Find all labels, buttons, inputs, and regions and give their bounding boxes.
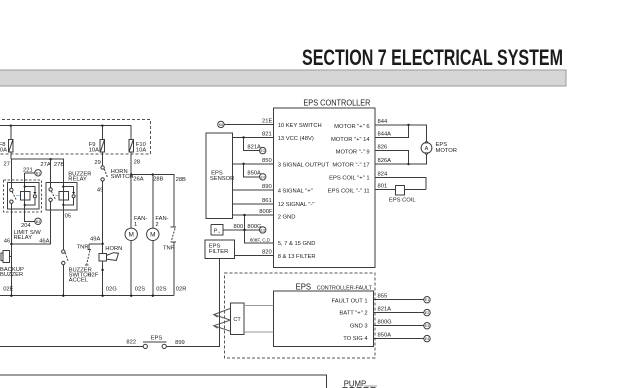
svg-text:10A: 10A	[0, 148, 7, 154]
wire 844	[375, 125, 427, 141]
EPS disconnect switch	[143, 342, 167, 348]
connector E1	[424, 297, 430, 303]
node gnd link top	[243, 214, 245, 216]
relay1 moving contact	[12, 192, 16, 200]
node rail-relay2	[49, 158, 51, 160]
svg-text:29: 29	[94, 160, 100, 166]
wire 824	[375, 178, 426, 190]
wire 890	[233, 189, 274, 191]
wire top supply bus	[0, 126, 131, 140]
svg-text:RELAY: RELAY	[14, 235, 33, 241]
relay2 moving contact	[51, 191, 55, 199]
horn switch	[101, 166, 108, 181]
svg-text:GND 3: GND 3	[350, 324, 368, 330]
svg-text:1: 1	[134, 222, 137, 228]
wire fan distribution	[131, 175, 174, 227]
svg-text:SENSOR: SENSOR	[210, 176, 234, 182]
connector K6	[218, 121, 224, 127]
svg-text:204: 204	[21, 223, 31, 229]
wire buzzer to ground	[10, 244, 12, 296]
relay2 actuator link	[55, 194, 59, 196]
svg-text:899: 899	[175, 340, 185, 346]
connector E4 sensor	[260, 174, 266, 180]
node fan1 tap	[130, 173, 132, 175]
node F8 tap	[10, 125, 12, 127]
node 826 join	[407, 163, 409, 165]
relay K2 buzzer relay body	[46, 183, 77, 210]
svg-text:10 KEY SWITCH: 10 KEY SWITCH	[278, 123, 322, 129]
svg-text:EPS: EPS	[151, 336, 163, 342]
svg-text:EPS COIL: EPS COIL	[389, 197, 417, 203]
motor fan2	[147, 228, 159, 240]
svg-text:E3: E3	[260, 149, 264, 153]
backup buzzer	[1, 251, 11, 263]
svg-text:28B: 28B	[153, 177, 163, 183]
svg-text:5, 7 & 15 GND: 5, 7 & 15 GND	[278, 241, 316, 247]
fuse box dashed enclosure	[0, 120, 151, 155]
wire 21E	[224, 123, 274, 125]
svg-text:B1: B1	[36, 171, 40, 175]
node 850A tap	[242, 163, 244, 165]
svg-text:844A: 844A	[378, 131, 392, 137]
node 821A tap	[242, 136, 244, 138]
svg-text:02F: 02F	[88, 272, 98, 278]
horn sounder	[99, 253, 118, 261]
svg-text:800: 800	[234, 224, 244, 230]
svg-text:02S: 02S	[156, 286, 166, 292]
node ground 02A	[62, 295, 64, 297]
wire relay2 aux loop	[63, 187, 73, 192]
pin relay1 contact bottom	[10, 200, 13, 203]
svg-text:TNR: TNR	[77, 244, 89, 250]
wire relay2 left pole	[50, 159, 52, 188]
svg-text:E1: E1	[425, 298, 429, 302]
node 49A junction	[101, 243, 103, 245]
wire 850	[233, 163, 274, 165]
wire relay1 coil to B3	[25, 209, 35, 221]
fuse F10	[129, 139, 146, 153]
EPS filter box	[205, 240, 234, 259]
wire 844A	[375, 125, 409, 137]
pin relay2 aux contact	[72, 192, 75, 198]
svg-text:821: 821	[262, 131, 272, 137]
wire relay1 aux loop	[25, 187, 35, 192]
svg-text:02S: 02S	[135, 286, 145, 292]
svg-text:K6: K6	[219, 123, 223, 127]
wire relay1 left pole	[10, 159, 12, 188]
svg-text:850A: 850A	[247, 171, 261, 177]
CT box	[230, 303, 243, 334]
EPS controller box	[274, 108, 375, 267]
EPS coil L1	[396, 186, 405, 195]
svg-text:27A: 27A	[40, 162, 50, 168]
svg-text:A: A	[425, 146, 429, 152]
svg-text:800F: 800F	[259, 209, 273, 215]
wire coil return	[404, 189, 426, 191]
connector E4	[424, 335, 430, 341]
svg-text:MOTOR "+" 14: MOTOR "+" 14	[331, 137, 370, 143]
connector B3	[35, 218, 41, 224]
pin relay2 contact top	[49, 188, 52, 191]
wire ground bus	[0, 295, 174, 297]
twisted pair lower	[214, 320, 231, 331]
EPS sensor box	[206, 133, 233, 218]
wire 861	[233, 203, 274, 205]
wire relay2 aux loop lower	[63, 198, 73, 205]
wire horn feed	[102, 181, 104, 296]
connector E3 fault	[424, 323, 430, 329]
svg-text:EPS COIL "+" 1: EPS COIL "+" 1	[329, 176, 369, 182]
svg-text:E3: E3	[425, 324, 429, 328]
relay K1 limit switch relay dashed enclosure	[3, 180, 41, 212]
svg-text:CT: CT	[233, 317, 241, 323]
wire 821A fault	[373, 312, 424, 314]
wire 855	[373, 299, 424, 301]
svg-text:EPS: EPS	[296, 282, 312, 291]
svg-text:05: 05	[65, 213, 71, 219]
wire fan1 to ground	[130, 241, 132, 296]
svg-text:MOTOR "-" 9: MOTOR "-" 9	[336, 150, 370, 156]
svg-text:M: M	[128, 232, 133, 239]
wire filter to EPS switch	[166, 259, 219, 347]
wire relay1 aux loop lower	[25, 198, 35, 205]
svg-text:PUMP: PUMP	[344, 379, 367, 388]
thermal switch TNR right	[171, 227, 176, 242]
svg-text:M: M	[150, 232, 155, 239]
EPS motor M1	[421, 141, 432, 155]
svg-text:21E: 21E	[262, 118, 272, 124]
wire F9 to horn switch	[101, 152, 103, 166]
svg-text:02R: 02R	[176, 286, 187, 292]
node 46 junction	[10, 243, 12, 245]
pump subtitle clipped fragment	[343, 387, 378, 388]
svg-text:MOTOR: MOTOR	[436, 148, 457, 154]
svg-text:RELAY: RELAY	[68, 176, 87, 182]
node relay2 coil bottom	[62, 204, 64, 206]
svg-text:26A: 26A	[133, 177, 143, 183]
P+ box	[211, 224, 223, 235]
node relay2 coil top	[62, 186, 64, 188]
wire 801	[375, 189, 396, 191]
svg-text:FILTER: FILTER	[209, 249, 229, 255]
wire fan2 to ground	[152, 241, 154, 296]
wire 02R drop	[173, 242, 175, 296]
wire 820	[234, 254, 273, 256]
pin relay2 contact bottom	[49, 198, 52, 201]
wire 821	[233, 136, 274, 138]
svg-text:826A: 826A	[378, 158, 392, 164]
svg-text:850A: 850A	[378, 333, 392, 339]
svg-text:824: 824	[378, 172, 388, 178]
pin relay1 contact top	[10, 188, 13, 191]
svg-text:E4: E4	[260, 175, 264, 179]
node relay1 coil top	[24, 186, 26, 188]
gray header band	[0, 70, 566, 86]
wire 822 to left	[0, 345, 143, 347]
svg-text:808F, C,D: 808F, C,D	[250, 237, 271, 242]
wire 800G fault	[373, 325, 424, 327]
wire rail 27	[11, 159, 64, 173]
wire 46 to 46A	[11, 243, 51, 245]
fault logic box	[274, 291, 374, 347]
twisted pair apex ticks	[214, 315, 218, 329]
relay K1 body	[7, 183, 38, 210]
svg-text:BUZZER: BUZZER	[0, 272, 23, 278]
svg-text:E3: E3	[260, 228, 264, 232]
connector E2	[424, 309, 430, 315]
svg-text:855: 855	[378, 294, 388, 300]
wire 826A	[375, 155, 427, 164]
wire F9 drop	[101, 126, 103, 140]
svg-text:EPS CONTROLLER: EPS CONTROLLER	[303, 99, 370, 108]
svg-text:02G: 02G	[106, 286, 117, 292]
svg-text:800G: 800G	[378, 320, 393, 326]
svg-text:E2: E2	[425, 311, 429, 315]
wire CT lower	[244, 331, 274, 333]
wire relay1 coil drop	[24, 173, 26, 183]
svg-text:E4: E4	[425, 337, 429, 341]
svg-text:MOTOR "+" 6: MOTOR "+" 6	[334, 124, 369, 130]
svg-text:801: 801	[378, 184, 388, 190]
wire F8 drop	[10, 126, 12, 140]
svg-text:13 VCC (48V): 13 VCC (48V)	[278, 136, 314, 142]
wire CT upper	[244, 305, 274, 307]
svg-text:TNR: TNR	[163, 245, 175, 251]
node relay1 coil bottom	[24, 204, 26, 206]
svg-text:820: 820	[262, 249, 272, 255]
wire 850A stub	[244, 164, 260, 177]
thermal switch TNR left	[85, 244, 91, 265]
svg-text:3 SIGNAL OUTPUT: 3 SIGNAL OUTPUT	[278, 162, 330, 168]
node horn bottom	[101, 269, 103, 271]
pump box	[0, 375, 327, 388]
fuse F9	[89, 139, 105, 153]
svg-text:826: 826	[378, 145, 388, 151]
wire 800	[223, 229, 259, 231]
svg-text:HORN: HORN	[105, 246, 122, 252]
relay K2 coil	[59, 192, 68, 201]
svg-text:2 GND: 2 GND	[278, 215, 296, 221]
svg-text:EPS COIL "-" 11: EPS COIL "-" 11	[328, 188, 370, 194]
svg-text:49A: 49A	[90, 237, 100, 243]
wire F10 to fan bus	[130, 152, 132, 174]
node ground 02S1	[130, 295, 132, 297]
fault dashed enclosure	[224, 273, 374, 358]
svg-text:821A: 821A	[378, 307, 392, 313]
svg-text:822: 822	[126, 340, 136, 346]
wire 826	[375, 151, 409, 164]
svg-text:FAULT OUT 1: FAULT OUT 1	[332, 299, 368, 305]
svg-text:SECTION 7 ELECTRICAL SYSTEM: SECTION 7 ELECTRICAL SYSTEM	[302, 45, 563, 70]
node gnd link mid	[243, 229, 245, 231]
fuse F8	[0, 139, 13, 153]
svg-text:BATT "+" 2: BATT "+" 2	[339, 311, 367, 317]
node ground 02S2	[152, 295, 154, 297]
svg-text:27B: 27B	[54, 162, 64, 168]
svg-text:10A: 10A	[136, 148, 146, 154]
wire relay1 coil through	[24, 183, 26, 210]
node F9 tap	[101, 125, 103, 127]
connector B1	[25, 170, 42, 176]
node 844 join	[407, 124, 409, 126]
relay1 actuator link	[16, 195, 20, 197]
svg-text:28: 28	[134, 160, 140, 166]
svg-text:MOTOR "-" 17: MOTOR "-" 17	[332, 163, 369, 169]
svg-text:12 SIGNAL "-": 12 SIGNAL "-"	[278, 202, 315, 208]
svg-text:850: 850	[262, 158, 272, 164]
svg-text:27: 27	[4, 161, 10, 167]
svg-text:844: 844	[378, 119, 388, 125]
relay K1 coil	[20, 191, 29, 200]
node ground 02G	[101, 295, 103, 297]
svg-text:821A: 821A	[247, 144, 261, 150]
svg-text:B3: B3	[36, 220, 40, 224]
svg-text:46: 46	[4, 238, 10, 244]
wire 800F	[233, 214, 274, 216]
svg-text:TO SIG 4: TO SIG 4	[343, 336, 368, 342]
svg-text:46A: 46A	[39, 238, 49, 244]
node ground 02E	[10, 295, 12, 297]
wire 821A stub	[244, 137, 260, 150]
wire relay2 coil through	[62, 173, 64, 210]
wire 49A	[89, 243, 103, 245]
connector E3 sensor	[260, 147, 266, 153]
buzzer switch accel contacts	[62, 250, 69, 265]
svg-text:28B: 28B	[176, 177, 186, 183]
motor fan1	[125, 228, 137, 240]
pump label underscore fragment	[364, 385, 377, 387]
svg-text:861: 861	[262, 198, 272, 204]
node fan2 tap	[152, 173, 154, 175]
svg-text:02E: 02E	[3, 286, 13, 292]
svg-text:10A: 10A	[89, 148, 99, 154]
wire fan1 drop	[130, 175, 132, 229]
pin relay1 aux contact	[33, 192, 36, 198]
twisted pair upper	[214, 308, 231, 320]
connector E3 gnd	[260, 227, 266, 233]
wire fan2 drop	[152, 175, 154, 229]
svg-text:8 & 13 FILTER: 8 & 13 FILTER	[278, 254, 316, 260]
wire 800F to gnd link	[245, 215, 274, 243]
wire relay2 coil to buzzer switch	[62, 210, 64, 250]
svg-text:890: 890	[262, 184, 272, 190]
svg-text:4 SIGNAL "+": 4 SIGNAL "+"	[278, 189, 313, 195]
wire 850A fault	[373, 338, 424, 340]
wire F8 out	[10, 152, 12, 159]
wire to ground 02A	[62, 265, 64, 296]
svg-text:2: 2	[155, 222, 158, 228]
svg-text:ACCEL: ACCEL	[69, 277, 89, 283]
